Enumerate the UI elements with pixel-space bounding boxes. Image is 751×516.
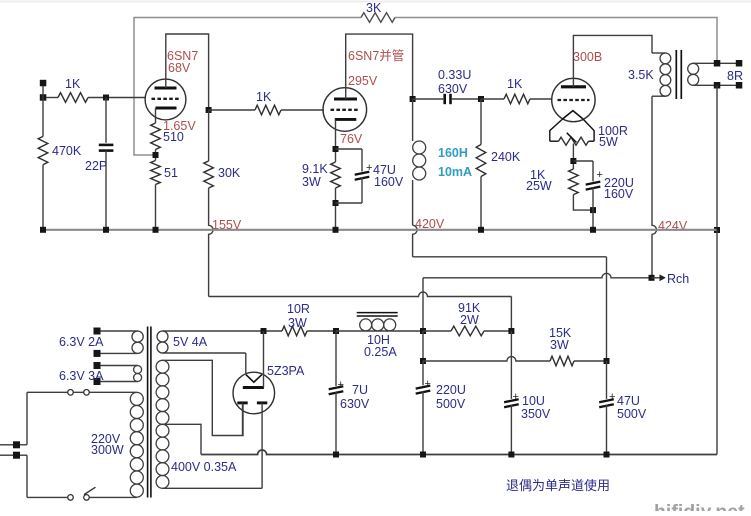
node Rch junction	[649, 275, 655, 281]
terminal 6.3V-3A bottom	[94, 378, 101, 385]
tube 300B envelope	[552, 78, 595, 121]
svg-text:220U: 220U	[436, 383, 466, 397]
tube V2 plate	[334, 98, 357, 101]
wire 1K to V2 grid	[281, 109, 324, 111]
wire HV top to plate	[163, 360, 244, 435]
node B+ 424V junction	[420, 328, 426, 334]
label 6.3V 3A	[59, 369, 104, 383]
resistor 10R 3W	[282, 326, 307, 336]
resistor 3K feedback	[361, 13, 395, 23]
winding 400V HV upper	[156, 360, 169, 424]
svg-text:68V: 68V	[168, 61, 191, 75]
svg-text:7U: 7U	[352, 383, 368, 397]
svg-text:240K: 240K	[491, 150, 521, 164]
terminal 8R top left	[714, 60, 721, 67]
label + 220U	[425, 378, 431, 390]
label + 220U 160V	[597, 169, 603, 181]
svg-text:10mA: 10mA	[438, 165, 472, 179]
wire Rch to B+ node	[422, 278, 424, 331]
capacitor 220U 160V	[586, 182, 601, 190]
label 500V last	[617, 407, 647, 421]
svg-text:160V: 160V	[604, 187, 634, 201]
svg-text:5Z3PA: 5Z3PA	[267, 364, 305, 378]
node ground 9.1K	[333, 227, 339, 233]
node ground 47U	[604, 452, 610, 458]
svg-text:+: +	[513, 391, 519, 403]
svg-text:退偶为单声道使用: 退偶为单声道使用	[506, 478, 610, 493]
svg-text:3W: 3W	[288, 316, 307, 330]
capacitor 7U 630V	[329, 331, 344, 455]
label 1K input	[65, 77, 81, 91]
svg-text:1K: 1K	[65, 77, 81, 91]
terminal 8R bottom left	[714, 82, 721, 89]
wire mains stubs	[0, 445, 27, 455]
label 160V cathode	[604, 187, 634, 201]
svg-text:+: +	[425, 378, 431, 390]
wire 1K 25W bottom	[573, 195, 593, 211]
potentiometer 100R 5W hum balance	[550, 119, 594, 146]
wire grid junction to 1K	[209, 109, 255, 111]
wire 91K leads	[423, 330, 511, 332]
wire HV bottom to plate	[163, 487, 263, 489]
wire V1 cathode lead	[155, 108, 157, 123]
wire feedback left segment (secondary to V1 cathode)	[134, 18, 361, 156]
wire 220U branch bottom	[592, 187, 594, 210]
wire mains left leg	[26, 392, 28, 497]
inductor 160H 10mA choke	[413, 99, 426, 225]
node ground 22P	[103, 227, 109, 233]
label 3K	[366, 1, 382, 15]
wire 300B plate lead	[573, 35, 652, 86]
label 25W	[526, 179, 552, 193]
label 424V	[658, 219, 688, 233]
wire 155V supply run	[209, 292, 512, 331]
label 10R	[287, 302, 310, 316]
label 10mA	[438, 165, 472, 179]
label 500V filter	[436, 397, 466, 411]
capacitor 47U 160V	[355, 172, 370, 180]
svg-text:500V: 500V	[617, 407, 647, 421]
svg-text:22P: 22P	[85, 159, 107, 173]
watermark hifidiy.net	[654, 501, 745, 516]
resistor 510 cathode	[151, 123, 161, 150]
transformer OPT secondary	[688, 63, 739, 85]
label 9.1K	[302, 162, 328, 176]
svg-text:295V: 295V	[348, 74, 378, 88]
wire 47U branch bottom	[336, 178, 363, 204]
node ground 300B cathode	[590, 227, 596, 233]
label 160H	[438, 146, 468, 160]
label 3W dropper	[550, 338, 569, 352]
wire feedback right segment	[395, 18, 717, 64]
label 155V	[212, 218, 242, 232]
svg-text:400V 0.35A: 400V 0.35A	[171, 460, 237, 474]
wire wiper to cathode node	[572, 144, 574, 170]
node ground 10U	[508, 452, 514, 458]
wire 5V to filament	[245, 353, 247, 375]
resistor 1K 25W cathode	[569, 169, 579, 195]
svg-text:300B: 300B	[573, 50, 602, 64]
wire Rch arrow	[652, 274, 666, 281]
wire 15K to 47U node	[574, 360, 607, 362]
transformer PT core	[148, 327, 151, 498]
resistor 1K interstage	[255, 105, 281, 115]
wire grid node to 1K	[481, 98, 504, 100]
label Rch	[667, 272, 689, 286]
fuse mains	[27, 390, 137, 396]
tube 5Z3PA plate left	[237, 401, 247, 404]
label 10H	[367, 333, 390, 347]
label mono note	[506, 478, 610, 493]
svg-text:9.1K: 9.1K	[302, 162, 328, 176]
label 47U	[373, 163, 396, 177]
node cathode RC bottom	[590, 207, 596, 213]
label 220U filter	[436, 383, 466, 397]
label 220U bypass	[604, 176, 634, 190]
svg-text:Rch: Rch	[667, 272, 689, 286]
label + 47U filter	[609, 391, 615, 403]
tube 300B grid	[558, 99, 590, 101]
node 9.1K bottom	[333, 200, 339, 206]
label 240K	[491, 150, 521, 164]
label 8R	[727, 69, 743, 83]
label 0.25A	[364, 345, 397, 359]
tube V2 6SN7 envelope	[323, 88, 367, 132]
winding 6.3V 3A	[100, 366, 141, 382]
tube 5Z3PA plate right	[257, 401, 267, 404]
label 1K 300B	[507, 77, 523, 91]
wire 30K down crossing ground	[209, 188, 214, 297]
svg-text:25W: 25W	[526, 179, 552, 193]
svg-text:+: +	[366, 162, 372, 174]
label 30K	[218, 166, 241, 180]
switch mains	[27, 487, 137, 500]
label 5Z3PA	[267, 364, 305, 378]
terminal mains neutral	[13, 452, 20, 459]
label 160V bypass	[374, 175, 404, 189]
capacitor 0.33U 630V	[445, 94, 451, 104]
wire plate right lead	[261, 403, 263, 488]
resistor 240K grid leak	[476, 99, 486, 230]
svg-text:3W: 3W	[302, 175, 321, 189]
label 300W	[91, 443, 124, 457]
svg-text:hifidiy.net: hifidiy.net	[654, 501, 745, 511]
tube 300B filament	[563, 111, 583, 119]
node ground input	[40, 227, 46, 233]
svg-text:6.3V 2A: 6.3V 2A	[59, 335, 104, 349]
wire ground rail top	[43, 229, 717, 231]
label 6SN7	[167, 49, 198, 63]
svg-text:+: +	[597, 169, 603, 181]
tube V2 grid	[331, 109, 360, 111]
terminal 8R top right	[736, 60, 743, 67]
label 1K interstage	[256, 90, 272, 104]
wire 1K to 300B grid	[530, 98, 553, 100]
node 15K junction	[420, 358, 426, 364]
wire input to R 1K	[46, 97, 58, 99]
terminal 6.3V-2A bottom	[94, 350, 101, 357]
svg-text:30K: 30K	[218, 166, 241, 180]
resistor 1K 300B grid	[504, 94, 530, 104]
tube 300B plate	[561, 85, 586, 88]
resistor 470K	[38, 136, 48, 164]
label 47U filter	[617, 394, 640, 408]
label 510	[163, 130, 184, 144]
node ground 240K	[478, 227, 484, 233]
wire right ground drop	[716, 230, 718, 455]
capacitor 220U 500V	[416, 361, 431, 455]
svg-text:8R: 8R	[727, 69, 743, 83]
svg-text:0.33U: 0.33U	[438, 68, 471, 82]
label 350V	[521, 407, 551, 421]
svg-text:510: 510	[163, 130, 184, 144]
wire 470K bottom	[42, 165, 44, 230]
label 2W	[460, 313, 479, 327]
wire Rch run	[423, 273, 652, 278]
label 3W cathode	[302, 175, 321, 189]
wire 51 to ground	[155, 185, 157, 231]
tube V2 cathode	[335, 118, 357, 121]
wire 22P bottom	[105, 151, 107, 230]
label 295V	[348, 74, 378, 88]
wire ground rail bottom	[201, 450, 717, 455]
label 3.5K	[628, 68, 654, 82]
wire 10R to 7U node	[307, 330, 336, 332]
node 300B grid junction	[478, 96, 484, 102]
svg-text:6SN7并管: 6SN7并管	[348, 48, 404, 63]
label 76V	[340, 132, 363, 146]
svg-text:10U: 10U	[522, 394, 545, 408]
svg-text:5W: 5W	[599, 135, 618, 149]
node feedback tap	[153, 152, 159, 158]
svg-text:350V: 350V	[521, 407, 551, 421]
tube 5Z3PA cathode bar	[243, 386, 264, 389]
wire 470K top	[42, 98, 44, 137]
wire plate junction to 30K	[208, 110, 210, 161]
wire V2 cathode lead	[335, 119, 337, 162]
wire 47U branch top	[336, 149, 363, 172]
wire 420V crossing ground	[413, 225, 418, 256]
transformer OPT core	[676, 50, 681, 99]
label 22P	[85, 159, 107, 173]
label 5W	[599, 135, 618, 149]
node grid junction 22P	[103, 95, 109, 101]
svg-text:630V: 630V	[438, 82, 468, 96]
wire plate to coupling cap	[413, 98, 444, 100]
svg-text:3W: 3W	[550, 338, 569, 352]
label 51	[164, 166, 178, 180]
svg-text:630V: 630V	[340, 397, 370, 411]
node ground 51	[153, 227, 159, 233]
label + 7U	[338, 379, 344, 391]
capacitor 22P	[99, 145, 114, 151]
label 10U	[522, 394, 545, 408]
tube V1 plate	[155, 87, 177, 90]
node 91K output	[508, 328, 514, 334]
node 47U junction	[604, 358, 610, 364]
input terminal top	[40, 80, 47, 87]
wire OPT primary bottom 424V	[652, 96, 657, 278]
label + 10U	[513, 391, 519, 403]
node V1 plate junction	[206, 107, 212, 113]
node ground 7U	[333, 452, 339, 458]
resistor 91K 2W	[451, 326, 484, 336]
winding 5V 4A	[157, 331, 246, 353]
label 470K	[52, 144, 82, 158]
capacitor 10U 350V	[504, 331, 519, 455]
label 400V 0.35A	[171, 460, 237, 474]
label 5V 4A	[173, 335, 208, 349]
winding 6.3V 2A	[100, 331, 143, 353]
svg-text:1K: 1K	[256, 90, 272, 104]
wire 1K to grid V1	[88, 97, 146, 99]
label 91K	[458, 301, 481, 315]
tube V1 6SN7 envelope	[145, 79, 186, 120]
svg-text:0.25A: 0.25A	[364, 345, 397, 359]
node 300B cathode junction	[570, 158, 576, 164]
tube 5Z3PA envelope	[233, 372, 275, 414]
resistor 9.1K 3W	[331, 162, 341, 188]
wire rectifier output run	[163, 330, 283, 332]
svg-text:160V: 160V	[374, 175, 404, 189]
wire input stub	[42, 86, 44, 98]
svg-text:2W: 2W	[460, 313, 479, 327]
label 3W filter	[288, 316, 307, 330]
tube V1 grid	[152, 98, 180, 100]
label 0.33U	[438, 68, 471, 82]
svg-text:+: +	[338, 379, 344, 391]
wire cathode to ground	[592, 210, 594, 230]
wire 220U branch top	[573, 161, 593, 181]
resistor 30K	[204, 161, 214, 188]
terminal 8R bottom right	[736, 82, 743, 89]
label 630V coupling	[438, 82, 468, 96]
terminal 6.3V-3A top	[94, 362, 101, 369]
node ground right	[714, 227, 720, 233]
resistor 15K 3W	[550, 356, 574, 366]
wire plate left lead	[242, 403, 244, 436]
label 15K	[549, 326, 572, 340]
label + 47U	[366, 162, 372, 174]
label 68V	[168, 61, 191, 75]
wire V2 plate lead	[346, 34, 413, 99]
svg-text:76V: 76V	[340, 132, 363, 146]
node 7U junction	[333, 328, 339, 334]
svg-text:+: +	[609, 391, 615, 403]
label 630V filter	[340, 397, 370, 411]
label 220V	[91, 432, 121, 446]
node rectifier cathode	[261, 328, 267, 334]
node V2 plate junction	[410, 96, 416, 102]
label 420V	[415, 217, 445, 231]
wire 9.1K to ground	[335, 188, 337, 230]
svg-text:3K: 3K	[366, 1, 382, 15]
transformer OPT primary 3.5K	[652, 53, 671, 96]
resistor 51 cathode	[151, 161, 161, 185]
label 300B	[573, 50, 602, 64]
wire 15K run	[423, 356, 550, 361]
capacitor 47U 500V	[599, 361, 614, 455]
svg-text:51: 51	[164, 166, 178, 180]
svg-text:10R: 10R	[287, 302, 310, 316]
label 1K cathode	[530, 168, 546, 182]
svg-text:47U: 47U	[617, 394, 640, 408]
label 7U	[352, 383, 368, 397]
svg-text:160H: 160H	[438, 146, 468, 160]
resistor 1K input	[58, 93, 88, 103]
svg-text:5V 4A: 5V 4A	[173, 335, 208, 349]
winding 220V primary	[130, 392, 143, 497]
node ground 220U	[420, 452, 426, 458]
svg-text:500V: 500V	[436, 397, 466, 411]
wire 420V supply run	[413, 257, 607, 361]
label 6SN7 parallel	[348, 48, 404, 63]
wire 5Z3PA cathode lead	[263, 331, 265, 388]
terminal mains live	[13, 441, 20, 448]
label 1.65V	[163, 119, 196, 133]
label 100R	[598, 124, 628, 138]
wire 510 to 51	[155, 150, 157, 161]
svg-text:470K: 470K	[52, 144, 82, 158]
svg-text:6.3V 3A: 6.3V 3A	[59, 369, 104, 383]
terminal 6.3V-2A top	[94, 328, 101, 335]
tube V1 cathode	[156, 107, 177, 110]
wire secondary bottom to ground	[716, 85, 718, 230]
wire V1 plate lead	[166, 34, 209, 110]
tube 5Z3PA filament	[246, 375, 262, 383]
svg-text:300W: 300W	[91, 443, 124, 457]
wire 22P top	[105, 98, 107, 143]
wire HV center tap	[163, 424, 202, 454]
svg-text:3.5K: 3.5K	[628, 68, 654, 82]
wire coupling cap to grid node	[452, 98, 481, 100]
input terminal signal	[40, 94, 47, 101]
winding 400V HV lower	[156, 424, 169, 488]
node V2 cathode junction	[333, 146, 339, 152]
inductor 10H 0.25A choke	[336, 313, 423, 331]
svg-text:1K: 1K	[507, 77, 523, 91]
label 6.3V 2A	[59, 335, 104, 349]
wire 220U drop	[422, 331, 424, 361]
